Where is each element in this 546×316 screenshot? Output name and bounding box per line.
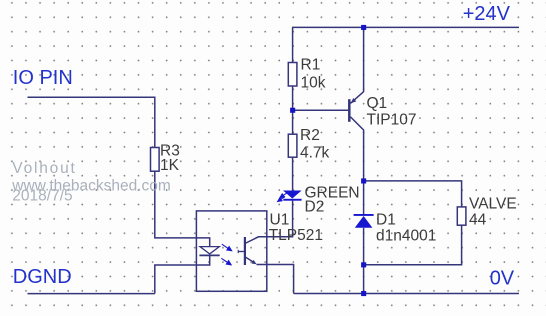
wire R1 to base node [292,86,294,134]
junction 0V rail [361,291,366,296]
svg-text:44: 44 [469,212,487,229]
svg-text:D2: D2 [305,198,325,215]
opto LED cathode bar [199,254,219,256]
svg-text:R2: R2 [300,127,320,144]
wire valve bottom [364,225,462,265]
junction D1 anode / valve bottom [361,262,366,267]
opto emitter arrowhead [251,260,256,264]
svg-text:0V: 0V [490,267,515,289]
opto base lead [238,251,245,253]
wire opto emitter out of box down to 0V rail [257,265,294,294]
resistor R3 body [151,148,160,172]
transistor Q1 emitter arrowhead (PNP, points into bar) [351,98,356,103]
svg-text:U1: U1 [270,211,290,228]
wire valve top [364,181,462,207]
svg-text:2018/7/5: 2018/7/5 [12,187,72,204]
wire IO PIN horizontal [28,97,155,147]
transistor Q1 bar [348,99,351,122]
wire DGND rail [28,293,155,295]
opto LED triangle (outlined) [200,247,219,254]
opto U1 box [196,211,266,291]
svg-text:D1: D1 [376,212,396,229]
svg-text:Q1: Q1 [367,95,388,112]
svg-text:DGND: DGND [13,266,72,288]
LED D2 emission arrows [278,193,288,202]
svg-text:R1: R1 [301,57,321,74]
LED D2 (filled triangle + bar) [283,191,302,201]
junction on +24V rail [361,25,366,30]
resistor R2 body [288,134,297,157]
wire D1 anode/cathode column [363,181,365,215]
resistor R1 body [288,63,297,87]
wire D2 cathode down to opto collector wire [292,201,294,237]
svg-text:4.7k: 4.7k [300,145,330,162]
opto phototransistor bar [244,237,246,265]
wire Q1 emitter from rail [351,27,364,103]
junction R1/R2/Q1 base node [290,108,295,113]
wire opto collector out of box to D2 column [245,237,293,244]
svg-text:VALVE: VALVE [469,195,517,212]
svg-text:1K: 1K [160,157,180,174]
svg-text:Volhout: Volhout [12,160,76,177]
resistor VALVE body [457,207,466,225]
wire 0V bottom rail [294,293,519,295]
opto light arrows [221,244,231,265]
wire Q1 collector down [351,117,364,181]
wire R3 down to opto LED input [155,171,210,246]
svg-text:TLP521: TLP521 [269,227,323,244]
diode D1 (filled triangle + bar) [354,214,374,228]
svg-text:d1n4001: d1n4001 [376,228,436,245]
wire base node to R2 handled above; wire R2 to D2 [292,157,294,191]
wire R1 branch from rail [292,27,294,62]
svg-text:+24V: +24V [463,3,511,25]
wire +24V top rail [292,26,519,28]
wire opto LED cathode to DGND step [155,255,210,293]
svg-text:IO PIN: IO PIN [13,67,73,89]
svg-text:TIP107: TIP107 [367,112,417,129]
wire Q1 base from node [293,109,350,111]
opto base pin tick [237,250,239,253]
svg-text:10k: 10k [301,75,326,92]
junction Q1 collector / valve top / D1 [361,178,366,183]
